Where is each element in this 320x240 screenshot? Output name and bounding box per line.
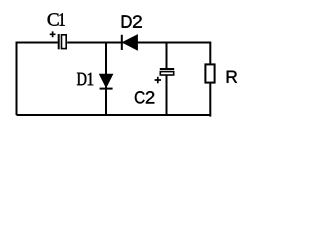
diode D2 (122, 35, 138, 50)
wire top-left segment (17, 43, 58, 116)
wire bottom (17, 114, 211, 116)
label D2 (122, 15, 142, 27)
wire C2 branch upper (166, 43, 168, 69)
capacitor C2 (160, 69, 174, 75)
wire top-right segment (67, 43, 210, 64)
label D1 (77, 73, 93, 86)
wire right lower segment (209, 83, 211, 117)
capacitor C1 (59, 34, 66, 49)
resistor R (205, 64, 214, 82)
polarity + mark of C2 (155, 77, 161, 83)
polarity + mark of C1 (50, 31, 56, 37)
label C2 (135, 91, 154, 103)
diode D1 (100, 74, 113, 88)
label R (227, 71, 237, 83)
wire D1 branch (105, 43, 107, 116)
label C1 (48, 13, 65, 25)
wire C2 branch lower (166, 75, 168, 115)
